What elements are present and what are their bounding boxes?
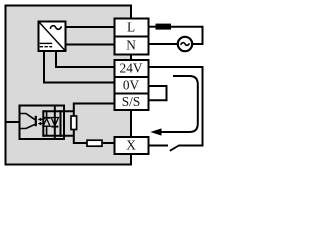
switch S1 lever xyxy=(170,146,179,151)
LED pair frame xyxy=(43,106,74,139)
AC source G1 xyxy=(178,37,192,51)
wire converter to L xyxy=(66,26,115,28)
terminal 0V xyxy=(115,77,149,94)
wire resistor bottom to X path xyxy=(74,130,87,144)
jumper 0V to S/S xyxy=(149,86,167,100)
terminal S/S xyxy=(115,94,149,111)
wire switch to loop xyxy=(179,145,204,147)
AC symbol (~) in converter xyxy=(50,26,61,30)
wire X to switch xyxy=(149,145,169,147)
light arrow 2 xyxy=(38,122,45,126)
svg-text:L: L xyxy=(127,20,135,35)
current-flow arrow annotation xyxy=(150,76,198,136)
svg-text:24V: 24V xyxy=(120,61,143,76)
terminal 24V xyxy=(115,60,149,77)
light arrow 1 xyxy=(38,118,45,122)
photodetector horn xyxy=(21,114,36,129)
LED D1 (up) xyxy=(43,111,51,136)
PLC panel body xyxy=(6,6,132,165)
vertical wire to S/S xyxy=(74,104,114,117)
wire 24V to switch (right loop) xyxy=(149,67,203,146)
terminal N xyxy=(115,37,149,55)
svg-text:0V: 0V xyxy=(123,77,140,92)
wire converter to 24V xyxy=(56,51,114,67)
wire panel edge to optocoupler xyxy=(6,121,20,123)
AC source sine xyxy=(181,43,190,46)
resistor R1 (input, horizontal) xyxy=(87,140,102,146)
terminal L xyxy=(115,19,149,37)
wire converter to 0V xyxy=(44,51,114,83)
optocoupler PC1 box xyxy=(20,106,65,140)
LED D2 (down) xyxy=(51,118,58,127)
svg-text:S/S: S/S xyxy=(122,94,141,109)
fuse F1 xyxy=(156,24,172,30)
svg-text:X: X xyxy=(126,138,136,153)
terminal X xyxy=(115,137,149,154)
wire resistor R1 to X xyxy=(102,142,114,144)
wire fuse to AC source xyxy=(171,27,203,44)
AC/DC converter U1 xyxy=(39,22,66,52)
resistor R2 (parallel, vertical) xyxy=(71,116,77,130)
wire converter to N xyxy=(66,44,115,46)
DC symbol in converter xyxy=(40,43,53,46)
wire L to fuse xyxy=(149,26,157,28)
svg-text:N: N xyxy=(126,38,136,53)
wire N to AC source xyxy=(149,43,178,45)
